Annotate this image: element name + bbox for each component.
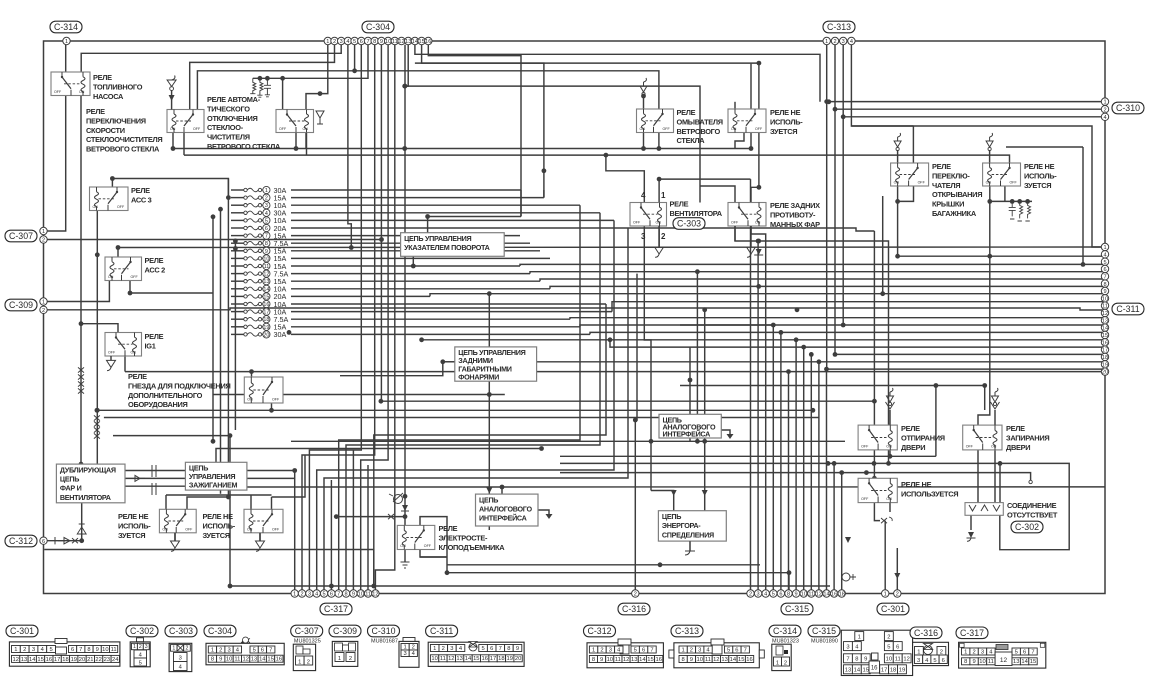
svg-text:16: 16 — [746, 657, 752, 663]
wire fuse F5 right lead — [291, 219, 614, 221]
wire rear fog bottom2 — [751, 226, 766, 240]
ground symbol above trunk relay — [894, 133, 901, 151]
wire c317 p11 vert — [367, 465, 369, 594]
wire ign box right2 — [247, 477, 295, 479]
svg-text:OFF: OFF — [185, 527, 193, 531]
node C-311 pins — [1101, 243, 1108, 375]
wire fuse F1 right lead — [291, 189, 521, 191]
connector pinout C-311 — [428, 642, 524, 667]
svg-text:2: 2 — [690, 647, 693, 653]
fuse F15 20A — [244, 292, 287, 301]
wire bus c311 pin6 — [530, 272, 1105, 274]
label relay accessory socket — [128, 372, 231, 409]
wire fuse F17 left lead — [231, 311, 244, 313]
wire fuse F20 left lead — [231, 333, 244, 335]
svg-text:C-313: C-313 — [675, 626, 699, 636]
svg-text:ON: ON — [400, 544, 406, 548]
svg-text:C-315: C-315 — [812, 626, 836, 636]
svg-text:13: 13 — [21, 657, 27, 663]
svg-text:11: 11 — [895, 657, 901, 663]
wire y472 bus — [560, 473, 1031, 481]
svg-text:4: 4 — [850, 39, 853, 45]
relay not used right bottom — [858, 478, 897, 502]
wire turn signal bottom — [412, 256, 414, 266]
connector pinout tag C-303b — [165, 625, 197, 637]
wire c302 down — [970, 515, 972, 530]
svg-text:5: 5 — [481, 646, 484, 652]
label relay fan — [670, 200, 723, 218]
wire nub bus — [166, 494, 272, 496]
svg-text:OFF: OFF — [731, 221, 739, 225]
wire trunk coil top — [897, 150, 899, 163]
connector tag C-302 — [1011, 521, 1043, 533]
wire fuse F10 left lead — [231, 257, 244, 259]
svg-text:9: 9 — [352, 592, 355, 598]
fuse F11 15A — [244, 262, 287, 271]
svg-text:1: 1 — [964, 649, 967, 655]
arrows ladder left — [94, 415, 100, 438]
svg-text:ON: ON — [731, 127, 737, 131]
svg-text:ON: ON — [886, 497, 892, 501]
circuit box analog interface right — [659, 414, 721, 438]
diode gnd below nub2 — [256, 533, 265, 551]
wire nu rb bottoms — [874, 503, 880, 521]
wire pw feed top — [404, 496, 406, 525]
wire C-304 pin11 drop — [375, 45, 394, 594]
relay fuel pump — [51, 72, 90, 96]
svg-text:6: 6 — [360, 39, 363, 45]
svg-text:15: 15 — [473, 656, 479, 662]
wire pw sw — [420, 517, 447, 573]
fuse F19 15A — [244, 323, 287, 332]
connector pinout C-303 — [169, 643, 192, 671]
wire tail box left — [443, 361, 455, 363]
ground right of analog right — [727, 434, 734, 439]
svg-text:16: 16 — [276, 657, 282, 663]
node C-316 pin 2 — [632, 590, 639, 598]
svg-text:11: 11 — [365, 592, 371, 598]
wire fuse v12 — [635, 274, 637, 594]
svg-text:MU801323: MU801323 — [772, 639, 799, 645]
fuse F8 7.5A — [244, 239, 289, 248]
wire relay3 coil feed — [282, 78, 284, 109]
svg-text:9: 9 — [864, 657, 867, 663]
connector pinout C-301 — [9, 639, 120, 667]
svg-text:1: 1 — [858, 634, 861, 640]
wire bus c311 pin16 — [610, 340, 1105, 347]
circuit box analog interface left — [476, 494, 539, 526]
border frame — [44, 41, 1106, 594]
arrows into energy box — [669, 490, 709, 496]
svg-text:1: 1 — [592, 647, 595, 653]
svg-text:14: 14 — [412, 39, 418, 45]
wire c315 p18 vert — [841, 473, 843, 594]
relay accessory socket — [244, 377, 283, 403]
svg-text:3: 3 — [265, 203, 268, 209]
svg-text:C-316: C-316 — [622, 604, 646, 614]
svg-text:5: 5 — [1015, 649, 1018, 655]
svg-text:5: 5 — [772, 592, 775, 598]
svg-text:1: 1 — [681, 647, 684, 653]
svg-text:1: 1 — [1103, 100, 1106, 106]
connector pinout tag C-317b — [956, 627, 988, 639]
wire c315 p16 vert — [833, 463, 835, 593]
connector pinout tag C-315b — [808, 625, 840, 637]
svg-text:ON: ON — [640, 127, 646, 131]
relay rear fog lamps — [728, 203, 766, 227]
wire fuse v6 — [324, 228, 628, 594]
svg-text:C-317: C-317 — [960, 628, 984, 638]
svg-text:2: 2 — [972, 649, 975, 655]
wire y572 bus — [447, 573, 789, 594]
relay windshield washer — [637, 109, 674, 133]
connector pinout C-315 — [811, 630, 913, 675]
svg-text:5: 5 — [265, 218, 268, 224]
svg-text:13: 13 — [631, 657, 637, 663]
wire door unlock bottoms — [873, 450, 875, 478]
svg-text:22: 22 — [95, 657, 101, 663]
wire C-310 pin4 line — [843, 116, 1105, 118]
wire fuse F7 right lead — [291, 235, 520, 237]
connector pinout C-302 — [130, 638, 150, 667]
wire fuse v5 — [317, 220, 614, 593]
wire nub2 top — [250, 495, 252, 509]
wire y564 bus — [447, 564, 760, 566]
wire f8 extension — [759, 241, 889, 463]
svg-text:C-304: C-304 — [208, 626, 232, 636]
svg-text:12: 12 — [903, 657, 909, 663]
svg-text:14: 14 — [854, 668, 861, 674]
wire y549 bus — [44, 550, 374, 587]
svg-text:2: 2 — [333, 39, 336, 45]
svg-text:OFF: OFF — [131, 275, 139, 279]
wire door lock coil top — [994, 410, 996, 425]
svg-text:24: 24 — [112, 657, 119, 663]
svg-text:ON: ON — [755, 221, 761, 225]
svg-text:7: 7 — [265, 234, 268, 240]
wire analog right gnd — [721, 430, 730, 434]
wire dup box top2 — [96, 445, 98, 464]
svg-text:ON: ON — [93, 205, 99, 209]
ground symbol above washer relay — [640, 78, 647, 96]
wire analog right top — [689, 380, 691, 414]
svg-text:12: 12 — [372, 592, 378, 598]
wire pw arrow line — [336, 516, 405, 518]
svg-text:10: 10 — [607, 657, 613, 663]
svg-text:17: 17 — [881, 668, 887, 674]
wire rear fog sw — [751, 187, 759, 202]
wire fuse F6 left lead — [231, 227, 244, 229]
connector tag C-310 — [1112, 102, 1144, 114]
ground below power window — [401, 562, 410, 568]
wire nub1 sw top — [187, 497, 230, 509]
svg-text:C-309: C-309 — [333, 626, 357, 636]
node C-310 pins — [1101, 98, 1108, 121]
svg-text:C-309: C-309 — [9, 300, 33, 310]
svg-text:19: 19 — [71, 657, 77, 663]
wire rear fog feeds — [700, 186, 735, 203]
svg-text:14: 14 — [263, 287, 269, 293]
svg-text:2: 2 — [1103, 107, 1106, 113]
wire tail box left zigzag — [340, 362, 443, 376]
svg-text:8: 8 — [681, 657, 684, 663]
svg-text:9: 9 — [690, 657, 693, 663]
label relay IG1 — [145, 332, 164, 350]
arrows ladder left2 — [78, 367, 84, 393]
svg-text:OFF: OFF — [193, 127, 201, 131]
wire bus c311 pin7 — [540, 279, 1105, 281]
svg-text:11: 11 — [440, 656, 446, 662]
relay door lock — [963, 425, 1002, 450]
wire door unlock coil bot — [889, 450, 891, 456]
svg-text:17: 17 — [54, 657, 60, 663]
wire c316 stub — [374, 304, 606, 586]
wire auto shutoff bottom — [295, 133, 297, 149]
connector pinout tag C-304b — [204, 625, 236, 637]
svg-text:1: 1 — [211, 647, 214, 653]
svg-text:C-314: C-314 — [773, 626, 797, 636]
svg-text:2: 2 — [265, 196, 268, 202]
svg-text:16: 16 — [425, 39, 431, 45]
arrow right of nu rb — [881, 517, 892, 523]
wire fuse F3 right lead — [291, 204, 580, 206]
circuit box backup headlamp fan — [56, 464, 125, 503]
wire c315 p3 vert — [757, 241, 759, 594]
svg-text:16: 16 — [481, 656, 487, 662]
svg-text:8: 8 — [373, 39, 376, 45]
svg-text:OFF: OFF — [633, 221, 641, 225]
fuse F7 15A — [244, 231, 287, 240]
svg-text:2: 2 — [300, 592, 303, 598]
svg-text:11: 11 — [988, 659, 994, 665]
svg-text:5: 5 — [353, 39, 356, 45]
wire C-304 pin8 drop — [302, 45, 375, 594]
ground diode above door lock coil — [991, 388, 1000, 425]
svg-text:C-311: C-311 — [430, 626, 453, 636]
svg-text:14: 14 — [29, 657, 36, 663]
svg-text:30A: 30A — [274, 330, 287, 339]
svg-text:9: 9 — [795, 592, 798, 598]
svg-text:СОЕДИНЕНИЕОТСУТСТВУЕТ: СОЕДИНЕНИЕОТСУТСТВУЕТ — [1007, 501, 1058, 519]
symbols on C-312 line — [55, 537, 78, 544]
wire nub1 gnd — [174, 533, 176, 541]
fuse F5 10A — [244, 216, 287, 225]
connector tag C-309 — [5, 299, 37, 311]
svg-text:2: 2 — [887, 634, 890, 640]
svg-text:14: 14 — [465, 656, 472, 662]
wire pw bottom gnd — [404, 550, 406, 563]
wire y557 seg — [420, 556, 447, 558]
svg-text:1: 1 — [326, 39, 329, 45]
wire energy in1 — [650, 441, 652, 490]
wire y417 bus — [104, 417, 819, 419]
svg-text:16: 16 — [831, 592, 837, 598]
wire y147 seg — [1006, 146, 1083, 148]
wire fuse F8 left lead — [231, 242, 244, 244]
svg-text:ON: ON — [162, 527, 168, 531]
diode on tail lamp drop — [486, 488, 492, 494]
svg-text:3: 3 — [227, 647, 230, 653]
relay ACC 3 — [90, 187, 129, 211]
ground right of analog left — [546, 514, 553, 519]
svg-text:3: 3 — [450, 646, 453, 652]
wire acc socket bottom stub — [271, 403, 273, 410]
svg-text:12: 12 — [623, 657, 629, 663]
svg-text:3: 3 — [145, 644, 148, 650]
svg-text:10: 10 — [801, 592, 807, 598]
svg-text:5: 5 — [323, 592, 326, 598]
svg-text:16: 16 — [871, 666, 878, 672]
svg-text:6: 6 — [490, 646, 493, 652]
svg-text:6: 6 — [896, 644, 899, 650]
connector tag C-315 — [781, 603, 813, 615]
wire fuse F10 right lead — [291, 257, 550, 259]
wire notused top switch — [750, 64, 752, 149]
arrow above C-301 pin2 — [894, 573, 900, 579]
svg-text:4: 4 — [764, 592, 767, 598]
wire bus c311 pin10 — [612, 302, 1105, 312]
wire fuse F7 left lead — [231, 235, 244, 237]
svg-text:1: 1 — [42, 300, 45, 306]
wire fuse left bus1 — [212, 217, 214, 441]
svg-text:9: 9 — [972, 659, 975, 665]
wire fuel relay coil down to dup box — [80, 94, 82, 465]
wire C-313 pin2 drop — [834, 45, 836, 355]
fuse F14 10A — [244, 285, 287, 294]
label relay not used right bottom — [901, 480, 958, 498]
svg-text:12: 12 — [398, 39, 404, 45]
wire dup to ign 1 — [125, 470, 185, 472]
svg-text:1: 1 — [42, 229, 45, 235]
label relay not used bottom2 — [203, 512, 236, 540]
svg-text:13: 13 — [845, 668, 851, 674]
svg-text:1: 1 — [293, 592, 296, 598]
wire fuse F13 left lead — [231, 280, 244, 282]
svg-text:19: 19 — [263, 325, 269, 331]
wire auto shutoff coil bottom — [306, 133, 308, 156]
wire pw trunk vert — [404, 85, 406, 87]
wire C-304 pin6 drop — [309, 45, 361, 594]
svg-text:13: 13 — [263, 279, 269, 285]
svg-text:ON: ON — [986, 181, 992, 185]
wire C-304 pin12 drop — [404, 45, 406, 497]
wire y463 bus — [560, 463, 1069, 549]
node C-301 pins — [882, 590, 902, 598]
fuse F13 15A — [244, 277, 287, 286]
wire mid vert 697 — [696, 272, 698, 442]
svg-text:2: 2 — [139, 644, 142, 650]
connector pinout tag C-310b — [368, 625, 400, 637]
wire ign box right1 — [247, 471, 295, 594]
wire fuse F17 right lead — [291, 311, 612, 313]
wire trunk bottom — [898, 186, 1105, 256]
wire fuse F1 left lead — [231, 189, 244, 191]
svg-text:6: 6 — [1023, 649, 1026, 655]
connector tag C-317 — [320, 603, 352, 615]
wire ACC2 top — [117, 248, 119, 258]
svg-text:РЕЛЕАСС 3: РЕЛЕАСС 3 — [131, 186, 152, 204]
ground below IG1 — [107, 356, 116, 371]
wire fuse F3 left lead — [231, 204, 244, 206]
wire y456 feed — [935, 386, 937, 457]
wire nu rb coil bot — [889, 503, 891, 512]
fuse F3 10A — [244, 201, 287, 210]
wire fuse F14 left lead — [231, 288, 244, 290]
svg-text:15: 15 — [1030, 659, 1036, 665]
wire c315 p12 vert — [818, 362, 820, 594]
wire y441 bus — [291, 440, 845, 442]
wire washer bottom1 — [643, 133, 645, 149]
svg-text:19: 19 — [899, 668, 905, 674]
svg-text:C-316: C-316 — [914, 628, 938, 638]
wire dup to ign 3 — [125, 485, 185, 487]
wire fuse F16 left lead — [231, 303, 244, 305]
label relay rear fog lamps — [770, 201, 820, 229]
svg-text:4: 4 — [1103, 115, 1106, 121]
wire C-307 pin2 bus — [47, 239, 381, 241]
svg-text:17: 17 — [490, 656, 496, 662]
fuse F16 10A — [244, 300, 287, 309]
wire fuse F11 left lead — [231, 265, 244, 267]
circuit box tail lamp control — [455, 347, 537, 382]
relay not used right top — [983, 163, 1021, 186]
svg-text:1: 1 — [825, 39, 828, 45]
svg-text:2: 2 — [219, 647, 222, 653]
svg-text:3: 3 — [846, 644, 849, 650]
svg-text:12: 12 — [816, 592, 822, 598]
resistor cluster top — [250, 78, 271, 97]
wire dup to ign 2 — [125, 477, 185, 479]
svg-text:18: 18 — [839, 592, 845, 598]
svg-text:ON: ON — [656, 221, 662, 225]
svg-text:3: 3 — [340, 39, 343, 45]
connector pinout C-312 — [587, 639, 663, 668]
svg-text:6: 6 — [735, 647, 738, 653]
svg-text:18: 18 — [890, 668, 896, 674]
svg-text:OFF: OFF — [1010, 181, 1018, 185]
wire C-304 pin14 drop — [415, 45, 820, 102]
fuse F4 30A — [244, 209, 287, 218]
wire rear fog bottom — [735, 226, 759, 241]
wire acc3 top bus — [112, 179, 228, 198]
svg-text:12: 12 — [242, 657, 248, 663]
connector pinout C-310 — [371, 638, 419, 668]
wire y410 bus — [97, 409, 813, 411]
svg-text:17: 17 — [263, 310, 269, 316]
svg-text:12: 12 — [1000, 657, 1008, 664]
wire C-313 pin4 drop — [851, 45, 1101, 247]
label relay door lock — [1006, 424, 1049, 452]
svg-text:5: 5 — [253, 647, 256, 653]
svg-text:7: 7 — [269, 647, 272, 653]
svg-text:4: 4 — [346, 39, 349, 45]
wire notused right sw bottom — [1004, 186, 1006, 201]
connector pinout C-307 — [293, 639, 321, 671]
wire notused bottom stub — [735, 133, 744, 149]
svg-text:C-310: C-310 — [372, 626, 396, 636]
svg-text:MU801687: MU801687 — [371, 639, 398, 645]
svg-text:21: 21 — [87, 657, 93, 663]
wire bus c311 pin20 — [125, 371, 1105, 373]
wire c315 p5 vert — [772, 325, 774, 594]
wire C-304 pin13 bus — [405, 86, 700, 202]
svg-text:ON: ON — [247, 398, 253, 402]
svg-text:2: 2 — [833, 39, 836, 45]
wire acc2 bottom sw — [130, 281, 213, 294]
svg-text:20: 20 — [79, 657, 85, 663]
svg-text:1: 1 — [172, 646, 175, 652]
wire notused top coil — [734, 102, 736, 109]
